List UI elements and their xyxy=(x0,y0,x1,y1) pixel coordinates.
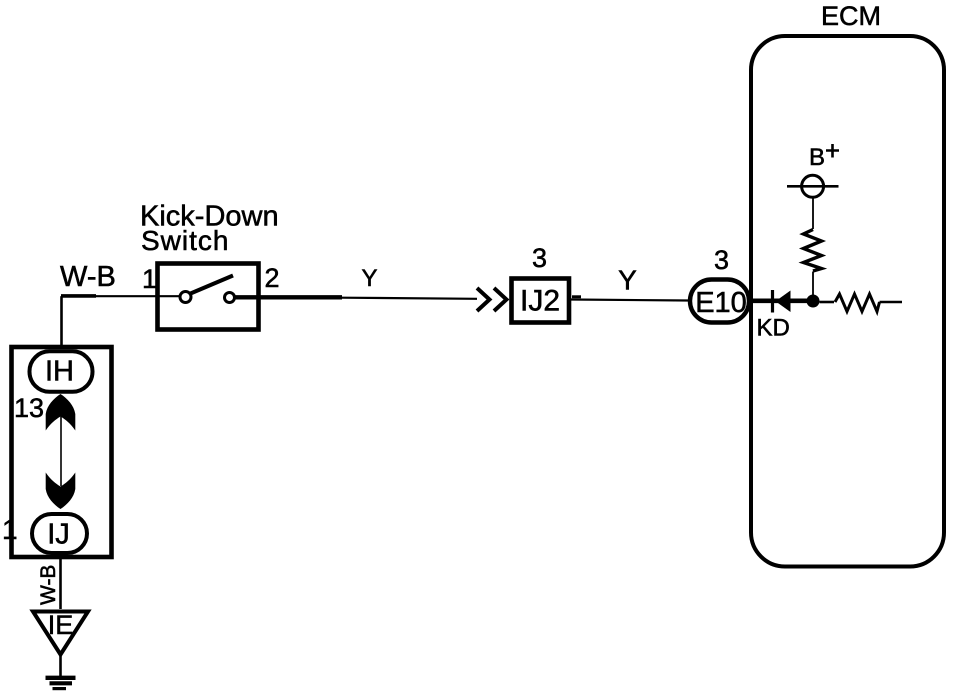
switch contact left xyxy=(180,292,191,303)
ground triangle IE xyxy=(33,612,88,655)
ECM enclosure box U1 xyxy=(751,36,944,567)
wire E10 to junction (thick) xyxy=(750,298,813,303)
svg-text:W-B: W-B xyxy=(37,565,60,605)
ground symbol xyxy=(46,676,76,680)
arrow down (junction block internal) xyxy=(46,473,76,510)
wire resistor R1 to junction xyxy=(812,272,814,296)
internal wire between arrows xyxy=(60,416,62,486)
svg-text:13: 13 xyxy=(14,393,44,423)
junction node xyxy=(807,295,820,308)
node B+ plus sign xyxy=(826,144,839,158)
svg-text:2: 2 xyxy=(265,263,280,293)
kick-down switch S1 body xyxy=(158,264,259,330)
wire IE to ground xyxy=(59,655,62,677)
connector E10 xyxy=(690,280,749,323)
junction block J/B box xyxy=(12,347,112,557)
svg-text:IJ2: IJ2 xyxy=(520,285,560,318)
arrow up (junction block internal) xyxy=(46,394,76,431)
resistor R2 (horizontal) xyxy=(835,294,880,312)
junction connector IJ2 xyxy=(512,279,570,323)
wire IJ to IE ground triangle xyxy=(59,556,62,609)
svg-text:IJ: IJ xyxy=(47,519,70,551)
diode KD (points left) xyxy=(776,291,791,313)
wire switch pin2 (thick part) xyxy=(235,295,343,299)
wire B+ terminal to resistor R1 xyxy=(812,197,814,229)
svg-text:Switch: Switch xyxy=(141,225,229,256)
svg-text:3: 3 xyxy=(714,245,729,275)
svg-text:E10: E10 xyxy=(695,287,747,319)
svg-text:1: 1 xyxy=(2,514,18,545)
wire after resistor R2 xyxy=(880,301,903,304)
B+ terminal crossing line xyxy=(787,185,839,188)
wire IJ2 to E10 xyxy=(571,300,688,301)
resistor R1 (vertical pull-up) xyxy=(804,230,822,272)
wire junction to resistor R2 xyxy=(820,301,835,304)
wire switch pin2 to chevrons (thin part) xyxy=(342,298,477,299)
connector IH xyxy=(30,351,93,392)
inline connector chevron 2 xyxy=(494,288,507,311)
inline connector chevron 1 xyxy=(477,288,490,311)
svg-text:Y: Y xyxy=(361,265,377,292)
svg-text:IH: IH xyxy=(45,356,74,388)
connector IJ xyxy=(32,514,87,553)
wire stub at IJ2 right pin xyxy=(572,295,581,298)
wire W-B vertical drop xyxy=(60,296,63,346)
B+ terminal circle xyxy=(802,175,824,197)
svg-text:3: 3 xyxy=(532,243,547,273)
svg-text:Y: Y xyxy=(618,265,637,296)
switch contact right xyxy=(225,293,235,303)
svg-text:IE: IE xyxy=(48,610,74,640)
svg-text:1: 1 xyxy=(142,264,157,294)
diode KD cathode bar xyxy=(771,290,774,313)
switch lever (open) xyxy=(191,276,234,294)
wire (thick scan segment near corner) xyxy=(61,294,96,298)
svg-text:ECM: ECM xyxy=(821,1,881,31)
svg-text:KD: KD xyxy=(757,315,790,342)
wire into switch pin 1 xyxy=(62,295,181,297)
svg-text:B: B xyxy=(809,144,825,171)
svg-text:W-B: W-B xyxy=(60,261,116,293)
